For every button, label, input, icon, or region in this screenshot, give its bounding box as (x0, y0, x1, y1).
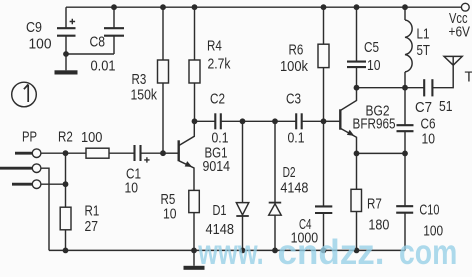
terminal PP 1 (15, 149, 41, 158)
node R2 input (63, 150, 69, 156)
ground (55, 54, 78, 75)
svg-text:51: 51 (439, 99, 453, 115)
svg-text:C8: C8 (90, 35, 106, 51)
resistor R2 (41, 148, 109, 158)
svg-text:9014: 9014 (203, 159, 231, 175)
svg-text:R2: R2 (58, 130, 73, 146)
capacitor C2 (215, 113, 221, 129)
wire C7 to antenna (432, 65, 453, 88)
svg-text:C5: C5 (364, 40, 379, 56)
wire signal line (195, 120, 216, 122)
svg-text:5T: 5T (417, 43, 431, 59)
node R4 C2 collector (192, 118, 198, 124)
svg-text:4148: 4148 (280, 181, 308, 197)
svg-text:BFR965: BFR965 (353, 117, 396, 133)
svg-text:R4: R4 (207, 39, 222, 55)
diode D1 (236, 121, 249, 250)
resistor R1 (60, 153, 71, 250)
resistor R6 (318, 7, 329, 121)
svg-text:R3: R3 (132, 72, 147, 88)
wire bottom ground rail (49, 249, 405, 251)
resistor R7 (351, 153, 362, 250)
svg-text:R7: R7 (367, 197, 382, 213)
svg-text:10: 10 (125, 181, 139, 197)
svg-text:100: 100 (81, 130, 102, 146)
svg-text:0.1: 0.1 (212, 131, 229, 147)
resistor R3 (158, 7, 169, 153)
svg-text:0.1: 0.1 (288, 131, 305, 147)
wire top Vcc rail (66, 6, 461, 8)
node collector L1 C6 (402, 85, 408, 91)
capacitor C10 (396, 153, 413, 250)
svg-text:27: 27 (85, 219, 99, 235)
wire C3 to BG2 base node (302, 120, 324, 122)
capacitor C4 (315, 121, 332, 250)
capacitor C7 (424, 79, 432, 96)
terminal PP 2 (0, 164, 41, 173)
node rail R5 ground (191, 248, 197, 254)
resistor R5 (189, 190, 200, 250)
svg-text:10: 10 (422, 132, 436, 148)
capacitor C1 (109, 145, 163, 163)
svg-text:C10: C10 (419, 203, 439, 219)
antenna T (444, 56, 462, 65)
capacitor C6 (397, 88, 414, 154)
wire input 3 to R1 column (41, 183, 66, 185)
svg-text:T: T (465, 70, 472, 86)
transistor BG1 (163, 121, 194, 190)
node C9-C8 junction (63, 51, 69, 57)
svg-text:R1: R1 (85, 204, 100, 220)
wire C8 to ground node (66, 53, 114, 55)
node top rail C8 (111, 4, 117, 10)
label circled 1 (24, 85, 28, 103)
transistor BG2 (324, 88, 357, 154)
capacitor C8 (104, 7, 124, 54)
node rail D2 (272, 248, 278, 254)
svg-text:180: 180 (368, 218, 389, 234)
capacitor C5 (347, 7, 366, 88)
node rail R7 (354, 248, 360, 254)
node D2 top (272, 118, 278, 124)
node top rail R4 (192, 4, 198, 10)
wire C2 to C3 (221, 120, 296, 122)
circle label 1 (12, 82, 37, 107)
node rail D1 (240, 248, 246, 254)
svg-text:D1: D1 (213, 203, 227, 219)
svg-text:0.01: 0.01 (91, 59, 116, 75)
svg-text:C9: C9 (26, 20, 42, 36)
svg-text:10: 10 (367, 58, 381, 74)
node C6 C10 (402, 151, 408, 157)
svg-text:C3: C3 (286, 92, 301, 108)
svg-text:cndzz.: cndzz. (278, 233, 385, 272)
svg-text:2.7k: 2.7k (208, 57, 232, 73)
node rail R1 (63, 248, 69, 254)
diode D2 (269, 121, 282, 250)
node R1 mid (63, 181, 69, 187)
svg-text:10: 10 (163, 207, 177, 223)
svg-text:C6: C6 (421, 117, 436, 133)
svg-text:R6: R6 (289, 43, 304, 59)
svg-text:100: 100 (29, 37, 52, 53)
ground main (184, 250, 205, 269)
wire input 2 down to ground rail (41, 168, 49, 250)
node top rail L1 (402, 4, 408, 10)
svg-text:150k: 150k (131, 88, 158, 104)
svg-text:C7: C7 (415, 100, 432, 116)
node emitter R7 (354, 151, 360, 157)
svg-text:L1: L1 (417, 27, 430, 43)
svg-text:+6V: +6V (449, 25, 471, 41)
svg-text:com: com (399, 233, 457, 272)
node BG2 base (321, 118, 327, 124)
resistor R4 (189, 7, 200, 121)
capacitor C9 (57, 7, 76, 54)
svg-text:C2: C2 (210, 92, 225, 108)
svg-text:www.: www. (198, 233, 264, 272)
svg-text:PP: PP (22, 130, 37, 146)
svg-text:D2: D2 (283, 165, 296, 181)
node D1 top (240, 118, 246, 124)
node rail C4 (321, 248, 327, 254)
svg-text:100k: 100k (280, 59, 309, 75)
terminal PP 3 (12, 180, 41, 189)
node top rail R6 (321, 4, 327, 10)
node top rail R3 (160, 4, 166, 10)
terminal Vcc (461, 3, 469, 11)
node BG1 base C1 R3 (160, 150, 166, 156)
wire emitter rail (357, 152, 406, 154)
capacitor C3 (296, 113, 302, 129)
node top rail C5 (354, 4, 360, 10)
inductor L1 (405, 7, 412, 88)
node collector C5 (354, 85, 360, 91)
wire collector rail (357, 87, 425, 89)
